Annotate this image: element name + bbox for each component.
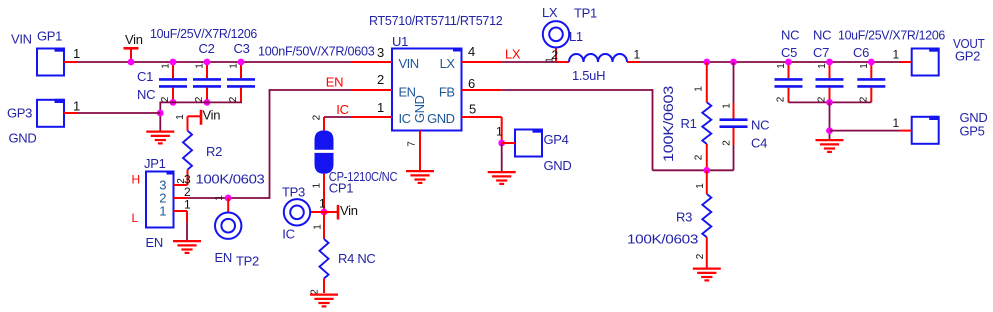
svg-text:1: 1 — [73, 46, 80, 61]
pin 2 of U1 (EN) — [352, 72, 393, 90]
resistor R2 — [183, 116, 265, 186]
svg-text:GND: GND — [427, 111, 455, 126]
svg-text:2: 2 — [695, 253, 706, 259]
svg-text:1: 1 — [859, 63, 870, 69]
node C1 bottom — [170, 99, 177, 106]
svg-text:H: H — [132, 173, 140, 187]
svg-text:2: 2 — [552, 48, 559, 62]
svg-text:10uF/25V/X7R/1206: 10uF/25V/X7R/1206 — [150, 26, 257, 41]
wire output cap ground bus — [789, 101, 872, 103]
pin numbers R1 — [694, 86, 705, 161]
svg-text:CP1: CP1 — [329, 181, 353, 196]
pin numbers C5 — [776, 63, 788, 103]
svg-text:Vin: Vin — [340, 203, 358, 218]
svg-text:GP2: GP2 — [955, 49, 980, 64]
wire input cap ground bus — [160, 101, 242, 103]
pin numbers R3 — [695, 183, 706, 260]
value label 10uF/25V/X7R/1206 (input caps) — [150, 26, 257, 41]
node C6 top — [868, 59, 875, 66]
pin numbers L1 — [552, 48, 641, 63]
node GND net junction — [157, 110, 164, 117]
wire EN riser — [269, 89, 271, 199]
pin 2 of JP1 — [174, 185, 192, 199]
svg-text:VIN: VIN — [399, 56, 419, 71]
svg-text:2: 2 — [377, 72, 384, 87]
node C2 bottom — [204, 99, 211, 106]
svg-text:1: 1 — [229, 63, 240, 69]
wire GND to GP5 — [830, 130, 900, 132]
pin numbers R2 — [175, 114, 187, 184]
svg-text:L1: L1 — [569, 29, 583, 44]
svg-text:100nF/50V/X7R/0603: 100nF/50V/X7R/0603 — [258, 44, 375, 59]
svg-text:EN: EN — [146, 235, 163, 250]
svg-text:IC: IC — [282, 227, 294, 242]
svg-text:1.5uH: 1.5uH — [572, 68, 605, 83]
power port Vin (R2 pullup) — [188, 108, 221, 125]
svg-text:R2: R2 — [206, 144, 222, 159]
svg-text:Vin: Vin — [203, 108, 221, 123]
svg-text:1: 1 — [817, 63, 828, 69]
inductor L1 1.5uH — [557, 29, 640, 83]
value label 100nF/50V/X7R/0603 — [258, 44, 375, 59]
pin 3 of U1 (VIN) — [352, 45, 393, 62]
svg-text:GP4: GP4 — [544, 132, 569, 147]
capacitor C6 — [853, 45, 885, 102]
svg-text:C1: C1 — [137, 69, 153, 84]
ground (R3) — [693, 269, 721, 281]
svg-text:2: 2 — [160, 96, 171, 102]
svg-text:GP1: GP1 — [37, 29, 62, 44]
node Vin junction — [128, 59, 135, 66]
node FB junction — [703, 167, 710, 174]
pin 1 of GP5 — [893, 116, 912, 131]
svg-text:1: 1 — [214, 195, 225, 201]
pin 6 of U1 (FB) — [462, 76, 502, 91]
pin 1 of GP2 — [893, 48, 912, 63]
net label IC — [336, 102, 348, 117]
svg-text:100K/0603: 100K/0603 — [196, 172, 265, 187]
svg-text:2: 2 — [228, 96, 239, 102]
svg-text:C2: C2 — [199, 41, 215, 56]
wire FB (pin6 to divider) — [502, 89, 734, 170]
ground (output section) — [816, 140, 844, 152]
capacitor C5 (NC) — [775, 28, 803, 103]
pin numbers C1 — [160, 63, 172, 103]
node EN junction at TP2 — [225, 195, 232, 202]
svg-text:U1: U1 — [392, 34, 408, 49]
capacitor CP1 (polymer, NC) — [315, 117, 398, 212]
pin 4 of U1 (LX) — [462, 44, 502, 62]
svg-text:100K/0603: 100K/0603 — [660, 86, 676, 162]
connector GP4 (GND) — [515, 129, 572, 174]
pin numbers C7 — [817, 63, 829, 103]
wire VIN rail (GP1 to U1 pin3) — [78, 61, 352, 63]
pin 5 of U1 (GND) — [462, 102, 502, 144]
svg-text:C5: C5 — [781, 45, 797, 60]
capacitor C4 (NC) — [720, 62, 770, 170]
svg-text:TP3: TP3 — [282, 185, 305, 200]
svg-text:4: 4 — [468, 44, 475, 59]
svg-text:1: 1 — [496, 125, 503, 139]
svg-text:1: 1 — [73, 99, 80, 114]
ground (R4) — [310, 295, 338, 307]
svg-text:1: 1 — [722, 103, 733, 109]
capacitor C7 (NC) — [813, 28, 844, 103]
testpoint TP3 — [282, 185, 324, 242]
connector GP3 (GND) — [7, 99, 64, 146]
svg-text:3: 3 — [377, 45, 384, 60]
capacitor C1 (NC) — [137, 62, 187, 102]
svg-text:NC: NC — [813, 28, 831, 43]
svg-text:1: 1 — [694, 86, 705, 92]
pin numbers CP1 — [312, 114, 323, 188]
net label EN — [326, 75, 343, 90]
svg-text:Vin: Vin — [125, 32, 143, 47]
capacitor C2 — [193, 41, 221, 102]
power port Vin (at TP3/IC) — [324, 203, 358, 220]
wire GND drop to ground — [501, 143, 503, 171]
jumper JP1 — [132, 156, 174, 250]
svg-text:2: 2 — [817, 96, 828, 102]
ground (U1 pin7) — [406, 171, 434, 183]
pin 1 of GP1 — [64, 46, 80, 62]
node C7 top — [826, 59, 833, 66]
svg-text:2: 2 — [722, 140, 733, 146]
ground (GND net) — [488, 172, 516, 184]
svg-text:NC: NC — [751, 118, 769, 133]
node C3 top — [238, 59, 245, 66]
resistor R4 (NC) — [320, 212, 376, 293]
svg-text:1: 1 — [893, 48, 900, 62]
svg-text:7: 7 — [407, 141, 418, 147]
svg-text:C7: C7 — [813, 45, 829, 60]
pin 1 of U1 (IC) — [352, 100, 393, 117]
pin numbers C2 — [194, 63, 206, 103]
svg-text:C4: C4 — [751, 136, 767, 151]
svg-text:2: 2 — [312, 114, 323, 120]
pin 1 of TP3 — [319, 197, 326, 211]
svg-text:LX: LX — [440, 56, 456, 71]
pin numbers C3 — [228, 63, 240, 103]
svg-text:C6: C6 — [853, 45, 869, 60]
wire ground drop (output) — [829, 102, 831, 140]
svg-text:10uF/25V/X7R/1206: 10uF/25V/X7R/1206 — [838, 28, 945, 43]
svg-text:NC: NC — [781, 28, 799, 43]
svg-text:L: L — [132, 211, 139, 225]
svg-text:EN: EN — [215, 250, 232, 265]
op-amp U1 RT5710 buck converter — [369, 13, 503, 131]
node IC junction at TP3 — [321, 209, 328, 216]
svg-text:RT5710/RT5711/RT5712: RT5710/RT5711/RT5712 — [369, 13, 503, 28]
svg-text:1: 1 — [377, 100, 384, 115]
svg-text:TP1: TP1 — [574, 6, 597, 21]
svg-text:EN: EN — [326, 75, 343, 90]
wire EN (riser to U1 pin2) — [270, 89, 352, 91]
power port Vin (at VIN rail) — [124, 32, 143, 62]
svg-text:1: 1 — [175, 114, 186, 120]
node C1 top — [170, 59, 177, 66]
svg-text:R1: R1 — [681, 116, 697, 131]
svg-text:GND: GND — [9, 131, 37, 146]
svg-text:TP2: TP2 — [236, 254, 259, 269]
svg-text:GND: GND — [412, 96, 427, 124]
svg-text:IC: IC — [399, 111, 411, 126]
node C4 top — [730, 59, 737, 66]
svg-text:LX: LX — [505, 47, 521, 62]
svg-text:GND: GND — [544, 158, 572, 173]
wire EN (JP1 pin2 to TP2 to riser) — [188, 197, 270, 199]
connector GP2 (VOUT) — [912, 36, 985, 76]
svg-text:1: 1 — [312, 182, 323, 188]
node C7 bottom — [826, 99, 833, 106]
node C2 top — [204, 59, 211, 66]
capacitor C3 — [227, 41, 255, 102]
svg-text:1: 1 — [313, 224, 324, 230]
svg-text:1: 1 — [695, 183, 706, 189]
resistor R1 — [660, 62, 711, 170]
node GND junction (pin5/GP4) — [498, 140, 505, 147]
net label LX — [505, 47, 521, 62]
wire IC (CP1 corner to U1 pin1) — [324, 116, 352, 118]
pin numbers C4 — [722, 103, 733, 146]
svg-text:C3: C3 — [234, 41, 250, 56]
svg-text:1: 1 — [159, 204, 166, 219]
node GND junction (GP5) — [826, 127, 833, 134]
wire VOUT rail (L1 to GP2) — [640, 61, 899, 63]
svg-text:LX: LX — [542, 5, 558, 20]
svg-text:6: 6 — [468, 76, 475, 91]
svg-text:1: 1 — [184, 198, 191, 212]
ground (input section) — [146, 132, 174, 144]
svg-text:1: 1 — [634, 48, 641, 62]
pin 1 of GP4 — [496, 125, 515, 144]
node C5 top — [785, 59, 792, 66]
value label 10uF/25V/X7R/1206 (output caps) — [838, 28, 945, 43]
svg-text:JP1: JP1 — [144, 156, 166, 171]
pin 1 of TP1 — [545, 57, 556, 63]
svg-text:5: 5 — [469, 102, 476, 117]
pin 7 of U1 (GND pad) — [407, 131, 420, 171]
svg-text:2: 2 — [194, 96, 205, 102]
connector GP5 (GND) — [912, 110, 988, 144]
svg-text:2: 2 — [694, 154, 705, 160]
svg-text:100K/0603: 100K/0603 — [627, 232, 698, 247]
svg-text:1: 1 — [776, 63, 787, 69]
svg-text:R4 NC: R4 NC — [338, 251, 376, 266]
wire LX (pin4 to L1) — [502, 61, 557, 63]
svg-text:1: 1 — [195, 63, 206, 69]
testpoint TP1 — [542, 5, 597, 62]
svg-text:2: 2 — [858, 96, 869, 102]
testpoint TP2 — [215, 198, 260, 269]
svg-text:1: 1 — [893, 116, 900, 130]
pin 1 of GP3 — [64, 99, 80, 114]
svg-text:GP5: GP5 — [960, 124, 985, 139]
pin numbers R4 — [310, 224, 324, 295]
connector GP1 (VIN input) — [11, 29, 64, 76]
svg-text:NC: NC — [137, 87, 155, 102]
wire JP1 pin1 to ground — [186, 222, 188, 240]
svg-text:IC: IC — [336, 102, 348, 117]
wire ground drop (cap bus to GND net) — [159, 102, 161, 131]
ground (JP1 pin1) — [173, 241, 201, 253]
svg-text:1: 1 — [161, 63, 172, 69]
wire GND (GP3 to ground) — [78, 112, 161, 114]
svg-text:GP3: GP3 — [7, 106, 32, 121]
svg-text:1: 1 — [319, 197, 326, 211]
node R1 top — [703, 59, 710, 66]
svg-text:R3: R3 — [676, 210, 692, 225]
svg-text:2: 2 — [776, 96, 787, 102]
pin numbers C6 — [858, 63, 870, 103]
resistor R3 — [627, 170, 711, 267]
pin 1 of JP1 — [174, 198, 192, 223]
pin 3 of JP1 — [174, 173, 192, 187]
pin 1 of TP2 — [214, 195, 225, 201]
svg-text:FB: FB — [439, 85, 455, 100]
svg-text:VIN: VIN — [11, 32, 32, 47]
